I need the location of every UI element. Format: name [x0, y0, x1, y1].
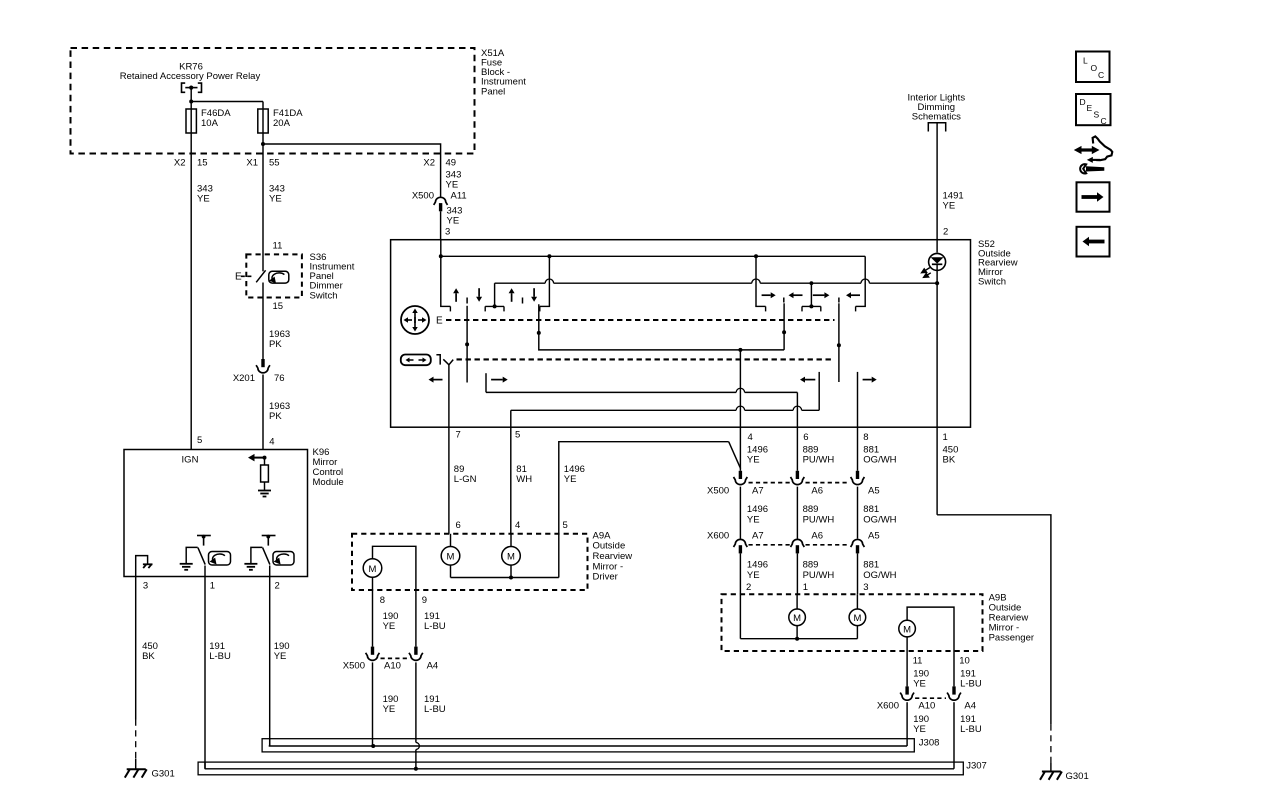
- svg-text:YE: YE: [197, 193, 210, 204]
- svg-text:A4: A4: [427, 661, 439, 672]
- svg-text:BK: BK: [943, 455, 956, 466]
- svg-text:WH: WH: [516, 474, 532, 485]
- svg-text:11: 11: [273, 240, 283, 251]
- svg-text:PK: PK: [269, 339, 282, 350]
- svg-text:15: 15: [197, 157, 208, 168]
- svg-text:YE: YE: [269, 193, 282, 204]
- svg-text:E: E: [235, 272, 242, 283]
- svg-text:YE: YE: [913, 724, 926, 735]
- svg-text:A10: A10: [384, 661, 401, 672]
- svg-text:A6: A6: [811, 530, 823, 541]
- svg-text:L-GN: L-GN: [454, 474, 477, 485]
- svg-text:YE: YE: [383, 621, 396, 632]
- svg-text:L-BU: L-BU: [424, 621, 446, 632]
- svg-text:M: M: [853, 613, 861, 624]
- svg-text:YE: YE: [747, 455, 760, 466]
- svg-text:M: M: [903, 625, 911, 636]
- svg-text:8: 8: [380, 595, 385, 606]
- svg-text:G301: G301: [152, 768, 175, 779]
- svg-text:4: 4: [269, 436, 274, 447]
- svg-text:OG/WH: OG/WH: [863, 455, 896, 466]
- svg-text:YE: YE: [747, 514, 760, 525]
- svg-text:A4: A4: [964, 701, 976, 712]
- svg-text:YE: YE: [564, 474, 577, 485]
- svg-text:X600: X600: [707, 530, 729, 541]
- svg-text:M: M: [507, 552, 515, 563]
- svg-text:E: E: [1087, 103, 1093, 113]
- svg-text:L-BU: L-BU: [209, 651, 231, 662]
- svg-text:E: E: [436, 315, 443, 326]
- svg-text:Driver: Driver: [593, 572, 618, 583]
- svg-text:Switch: Switch: [310, 290, 338, 301]
- svg-text:M: M: [447, 552, 455, 563]
- svg-text:A7: A7: [752, 530, 764, 541]
- svg-text:A6: A6: [811, 485, 823, 496]
- svg-text:55: 55: [269, 157, 280, 168]
- svg-text:YE: YE: [274, 651, 287, 662]
- svg-text:3: 3: [445, 226, 450, 237]
- svg-text:O: O: [1091, 63, 1098, 73]
- svg-text:X201: X201: [233, 373, 255, 384]
- svg-text:Switch: Switch: [978, 277, 1006, 288]
- svg-text:A10: A10: [918, 701, 935, 712]
- svg-text:YE: YE: [913, 679, 926, 690]
- svg-text:A5: A5: [868, 485, 880, 496]
- svg-text:X500: X500: [412, 190, 434, 201]
- svg-text:Panel: Panel: [481, 86, 505, 97]
- svg-text:YE: YE: [943, 200, 956, 211]
- svg-text:7: 7: [456, 430, 461, 441]
- svg-text:L: L: [1083, 55, 1088, 65]
- svg-text:PU/WH: PU/WH: [803, 514, 835, 525]
- svg-text:OG/WH: OG/WH: [863, 570, 896, 581]
- svg-text:10: 10: [959, 655, 970, 666]
- svg-text:M: M: [369, 564, 377, 575]
- svg-text:X500: X500: [707, 485, 729, 496]
- svg-text:L-BU: L-BU: [424, 704, 446, 715]
- svg-text:6: 6: [803, 432, 808, 443]
- svg-text:X2: X2: [174, 157, 186, 168]
- svg-text:5: 5: [515, 430, 520, 441]
- svg-text:2: 2: [746, 582, 751, 593]
- svg-text:X500: X500: [343, 661, 365, 672]
- svg-text:20A: 20A: [273, 118, 291, 129]
- svg-text:3: 3: [143, 580, 148, 591]
- svg-text:YE: YE: [447, 215, 460, 226]
- svg-text:11: 11: [913, 655, 923, 666]
- svg-text:4: 4: [515, 520, 520, 531]
- svg-text:A5: A5: [868, 530, 880, 541]
- svg-text:1: 1: [803, 582, 808, 593]
- svg-text:Schematics: Schematics: [912, 111, 961, 122]
- svg-text:Retained Accessory Power Relay: Retained Accessory Power Relay: [120, 71, 261, 82]
- svg-text:Passenger: Passenger: [989, 632, 1034, 643]
- svg-text:3: 3: [863, 582, 868, 593]
- svg-text:A11: A11: [451, 190, 467, 201]
- svg-text:2: 2: [943, 227, 948, 238]
- svg-text:2: 2: [275, 580, 280, 591]
- svg-text:9: 9: [422, 595, 427, 606]
- svg-text:L-BU: L-BU: [960, 724, 982, 735]
- svg-text:A7: A7: [752, 485, 764, 496]
- svg-text:6: 6: [456, 520, 461, 531]
- svg-text:M: M: [793, 613, 801, 624]
- svg-text:X600: X600: [877, 701, 899, 712]
- svg-text:PU/WH: PU/WH: [803, 570, 835, 581]
- svg-text:J308: J308: [919, 737, 940, 748]
- svg-text:G301: G301: [1066, 771, 1089, 782]
- svg-text:BK: BK: [142, 651, 155, 662]
- svg-text:OG/WH: OG/WH: [863, 514, 896, 525]
- svg-text:S: S: [1094, 109, 1100, 119]
- svg-text:C: C: [1101, 116, 1107, 126]
- svg-text:76: 76: [274, 373, 285, 384]
- svg-text:X2: X2: [423, 157, 435, 168]
- svg-text:1: 1: [210, 580, 215, 591]
- svg-text:10A: 10A: [201, 118, 219, 129]
- svg-text:C: C: [1098, 70, 1104, 80]
- svg-text:49: 49: [446, 157, 457, 168]
- svg-text:L-BU: L-BU: [960, 679, 982, 690]
- svg-text:5: 5: [197, 435, 202, 446]
- svg-text:8: 8: [863, 432, 868, 443]
- svg-text:YE: YE: [383, 704, 396, 715]
- svg-text:J307: J307: [966, 761, 987, 772]
- svg-text:IGN: IGN: [182, 454, 199, 465]
- svg-text:YE: YE: [446, 179, 459, 190]
- svg-text:YE: YE: [747, 570, 760, 581]
- svg-text:1: 1: [943, 432, 948, 443]
- svg-text:D: D: [1080, 97, 1086, 107]
- svg-text:4: 4: [748, 432, 753, 443]
- svg-text:Module: Module: [313, 477, 344, 488]
- svg-text:PK: PK: [269, 411, 282, 422]
- svg-text:15: 15: [273, 301, 284, 312]
- svg-text:5: 5: [563, 520, 568, 531]
- svg-text:X1: X1: [246, 157, 258, 168]
- svg-text:PU/WH: PU/WH: [803, 455, 835, 466]
